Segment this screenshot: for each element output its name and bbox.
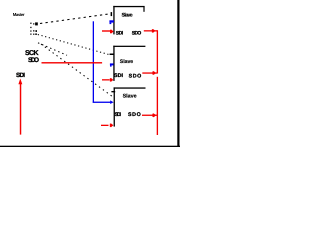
wire slave1 SDO out xyxy=(144,30,157,31)
dashed wire to slave2 top xyxy=(38,35,111,56)
wire slave3 SDO out xyxy=(142,115,157,116)
wire SDI red vertical to master xyxy=(20,84,21,135)
dashed wire end tick slave3 xyxy=(111,91,115,92)
slave2 box left edge xyxy=(113,46,114,81)
svg-text:SDO: SDO xyxy=(132,30,142,36)
master pin blob b xyxy=(36,30,37,32)
svg-text:Slave: Slave xyxy=(122,12,133,18)
arrowhead slave3 SDO out xyxy=(152,113,156,117)
wire red right vertical lower xyxy=(157,77,158,135)
wire red stub into slave1 SDI xyxy=(102,30,111,31)
arrowhead slave2 SDO out xyxy=(152,71,156,75)
wire SCK blue elbow horizontal xyxy=(93,102,111,103)
dashed wire to slave2 bottom xyxy=(38,43,67,56)
arrowhead slave1 SDO out xyxy=(152,29,156,33)
dashed wire to slave1 xyxy=(40,14,110,24)
slave1 box left edge xyxy=(113,6,114,35)
slave2 box top edge xyxy=(113,46,145,47)
arrowhead into slave3 xyxy=(110,123,114,127)
master pin blob a xyxy=(35,22,38,25)
SCK arrowhead into slave3 xyxy=(110,100,113,104)
svg-text:SDI: SDI xyxy=(16,72,25,79)
arrowhead into slave2 xyxy=(110,78,114,82)
svg-text:Slave: Slave xyxy=(120,59,134,65)
svg-text:SDO: SDO xyxy=(129,74,142,80)
SCK arrowhead into slave2 xyxy=(110,63,114,65)
dashed wire to slave3 xyxy=(41,44,113,97)
slave1 box right edge stub xyxy=(143,6,144,12)
slave1 box top edge xyxy=(113,6,144,7)
svg-text:Master: Master xyxy=(13,12,25,17)
svg-text:SCK: SCK xyxy=(25,50,39,57)
svg-text:SDI: SDI xyxy=(115,112,122,118)
svg-text:SDO: SDO xyxy=(28,57,39,64)
frame bottom border xyxy=(0,146,180,147)
wire slave2 SDO out xyxy=(142,72,157,73)
svg-text:SDI: SDI xyxy=(114,73,124,79)
master block dotted right edge xyxy=(33,23,34,24)
master pin blob c xyxy=(35,33,37,35)
wire red stub into slave3 xyxy=(101,125,109,126)
wire red stub into slave2 xyxy=(102,79,110,80)
slave3 box top edge xyxy=(114,87,146,88)
wire SDO red horizontal from master xyxy=(42,62,103,63)
SCK arrowhead into slave1 xyxy=(109,20,114,22)
wire red right vertical upper xyxy=(157,30,158,73)
dashed wire end tick slave1 xyxy=(111,12,113,16)
frame right border xyxy=(177,0,179,147)
arrowhead up to master SDI xyxy=(18,79,22,85)
arrowhead into slave1 SDI xyxy=(110,30,114,34)
wire SCK blue vertical xyxy=(93,21,94,102)
master block dotted left edge xyxy=(30,23,31,24)
dashed wire end tick slave2 xyxy=(110,54,115,56)
svg-text:SDI: SDI xyxy=(116,30,124,36)
svg-text:SDO: SDO xyxy=(128,112,141,118)
slave3 box left edge xyxy=(114,87,115,126)
svg-text:Slave: Slave xyxy=(123,93,137,99)
